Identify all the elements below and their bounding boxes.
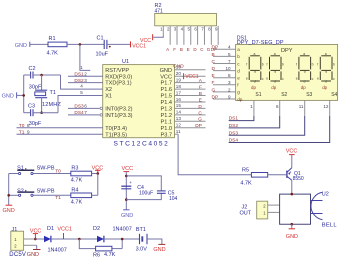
- designator J2: [242, 205, 248, 211]
- svg-text:a: a: [274, 52, 276, 56]
- junction C5 bottom: [125, 198, 128, 201]
- svg-text:C3: C3: [28, 104, 35, 110]
- svg-text:J2: J2: [242, 205, 248, 211]
- svg-text:DPY: DPY: [281, 48, 293, 54]
- junction R6 right: [121, 238, 124, 241]
- DS1 pin 3 (f) wire + net label F: [212, 80, 236, 86]
- svg-text:GND: GND: [286, 234, 298, 240]
- wire net T0 (U1 pin 8): [17, 127, 103, 129]
- svg-text:e: e: [317, 77, 319, 81]
- net label E (R2): [187, 47, 190, 52]
- U1 pin name T1(P3.5): [105, 132, 127, 138]
- svg-text:F: F: [212, 80, 215, 86]
- svg-text:DS1: DS1: [229, 116, 239, 122]
- net label G (U1): [198, 117, 202, 123]
- svg-text:6: 6: [276, 104, 279, 109]
- svg-text:DS1: DS1: [74, 72, 84, 78]
- designator C2: [29, 66, 36, 72]
- svg-text:C1: C1: [97, 36, 104, 42]
- U1 pin name P1.2: [160, 113, 172, 119]
- svg-text:D: D: [212, 66, 216, 72]
- svg-text:T0(P3.4): T0(P3.4): [105, 126, 127, 132]
- svg-text:P1.5: P1.5: [160, 94, 172, 100]
- ground port GND (bell): [286, 224, 298, 240]
- U1 pin 14 wire: [175, 110, 206, 115]
- U1 pin name INT1(P3.3): [105, 113, 132, 119]
- U1 pin name GND: [160, 68, 172, 74]
- svg-text:T0: T0: [19, 123, 25, 129]
- DS1 digit 4 dp label: [322, 85, 327, 90]
- value 104: [169, 196, 178, 202]
- R2 pin 9: [215, 26, 218, 45]
- value 4.7K (R1): [47, 51, 59, 57]
- wire net DS3 (display select): [229, 116, 305, 135]
- svg-text:BELL: BELL: [322, 223, 338, 229]
- U1 pin name VCC: [160, 74, 172, 80]
- U1 pin 16 wire: [175, 97, 206, 102]
- junction crystal top: [40, 74, 43, 77]
- wire J1 to D1: [35, 238, 44, 240]
- U1 pin name P1.4: [160, 100, 172, 106]
- U1 pin 12 wire: [175, 123, 206, 128]
- net label B (U1): [199, 91, 202, 97]
- value 1N4007 (D1): [48, 247, 67, 253]
- wire C2 row: [24, 74, 61, 76]
- J1 pin 1: [14, 237, 35, 242]
- designator S1: [17, 166, 24, 172]
- transistor Q1 (8550 PNP): [287, 168, 292, 194]
- svg-text:G: G: [198, 117, 202, 123]
- svg-text:GND: GND: [160, 68, 172, 74]
- svg-text:+: +: [129, 180, 132, 185]
- U1 pin name P1.7: [160, 81, 172, 87]
- R2 pin 5: [188, 26, 191, 45]
- svg-text:J1: J1: [12, 227, 18, 233]
- svg-text:104: 104: [169, 196, 178, 202]
- value 3.0V: [136, 246, 148, 252]
- power port VCC (J1): [30, 228, 42, 239]
- designator C1: [97, 36, 104, 42]
- DS1 pin name c: [237, 61, 240, 66]
- value 8550: [293, 176, 304, 182]
- junction bell GND node: [291, 223, 294, 226]
- U1 pin name RXD(P3.0): [105, 74, 132, 80]
- ground port GND (crystal): [2, 92, 24, 99]
- svg-text:30pF: 30pF: [29, 121, 42, 127]
- R2 pin 6: [194, 26, 197, 45]
- value 10uF: [96, 52, 109, 58]
- wire GND to R1: [30, 43, 48, 45]
- connector J2 body: [257, 201, 268, 219]
- svg-text:DS2: DS2: [229, 123, 239, 129]
- net label C (U1): [198, 110, 202, 116]
- net label DP (U1): [195, 123, 202, 129]
- svg-text:T1(P3.5): T1(P3.5): [105, 132, 127, 138]
- diode D2 (1N4007): [97, 236, 104, 243]
- designator U1: [122, 59, 129, 65]
- junction GND rail: [22, 94, 25, 97]
- net label DS2 / pin 3: [74, 78, 87, 84]
- svg-text:10: 10: [225, 66, 231, 71]
- wire C3 row: [24, 112, 58, 114]
- svg-text:DS2: DS2: [74, 78, 84, 84]
- DS1 pin name dp: [237, 97, 243, 102]
- junction S2 left: [7, 194, 10, 197]
- designator R1: [49, 36, 56, 42]
- U1 pin name X1: [105, 94, 112, 100]
- svg-text:X1: X1: [105, 94, 112, 100]
- DS1 pin 2 (g) wire + net label G: [212, 87, 236, 93]
- DS1 pin 9 (dp) wire + net label DP: [212, 94, 236, 100]
- svg-text:DS3: DS3: [74, 104, 84, 110]
- wire C1 to VCC1: [107, 43, 131, 45]
- svg-text:S4: S4: [331, 92, 337, 98]
- svg-text:e: e: [246, 77, 248, 81]
- svg-text:RXD(P3.0): RXD(P3.0): [105, 74, 132, 80]
- wire BT1 to GND: [147, 239, 162, 244]
- value 30pF (C2): [29, 84, 42, 90]
- svg-text:d: d: [237, 68, 240, 73]
- U1 pin name P1.1: [160, 119, 172, 125]
- power port VCC1 (bottom): [57, 227, 72, 239]
- svg-text:1N4007: 1N4007: [48, 247, 67, 253]
- svg-text:20: 20: [176, 71, 182, 76]
- DS1 pin 10 (d) wire + net label D: [212, 66, 236, 72]
- DS1 digit 3 seven-segment glyph: [296, 52, 314, 83]
- R2 pin 1: [160, 26, 163, 36]
- svg-text:R5: R5: [242, 167, 249, 173]
- wire left rail (C2-C3): [23, 75, 25, 113]
- svg-text:VCC: VCC: [286, 148, 298, 154]
- svg-text:4: 4: [80, 84, 83, 89]
- wire R4 to VCC rail: [92, 194, 98, 196]
- junction VCC rail: [97, 172, 100, 175]
- buzzer U2 (bell): [311, 192, 323, 219]
- wire D1 to D2: [51, 238, 97, 240]
- op-amp U1 body (MCU STC12C4052): [103, 65, 175, 138]
- svg-text:16: 16: [176, 97, 182, 102]
- connector J1 body: [11, 231, 24, 250]
- wire R1 to C1: [67, 43, 104, 45]
- svg-text:471: 471: [155, 9, 164, 15]
- value SW-PB (S2): [37, 188, 55, 194]
- svg-text:C: C: [212, 59, 216, 65]
- svg-text:D1: D1: [47, 226, 54, 232]
- designator R3: [71, 166, 78, 172]
- R2 pin 2: [167, 26, 170, 45]
- value DC5V: [9, 252, 26, 258]
- svg-text:2: 2: [84, 72, 87, 77]
- svg-text:P1.0: P1.0: [160, 126, 172, 132]
- svg-text:f: f: [267, 62, 268, 66]
- svg-text:BT1: BT1: [136, 227, 146, 233]
- svg-text:U1: U1: [122, 59, 129, 65]
- junction Q1 collector node: [291, 193, 294, 196]
- svg-text:R1: R1: [49, 36, 56, 42]
- power port VCC1 (U1 pin 20): [184, 73, 199, 80]
- svg-text:5: 5: [80, 90, 83, 95]
- wire X1 net: [58, 96, 103, 113]
- svg-text:3: 3: [228, 80, 231, 85]
- designator T1: [50, 90, 56, 96]
- svg-text:dp: dp: [322, 85, 327, 90]
- wire net DS1 (U1 pin 2): [68, 75, 103, 77]
- svg-text:T1: T1: [19, 130, 25, 136]
- resistor R1: [48, 42, 67, 47]
- DS1 pin name g: [237, 90, 240, 95]
- svg-text:GND: GND: [15, 43, 27, 49]
- diode D1 (1N4007): [44, 236, 51, 243]
- value 100uF: [139, 190, 153, 196]
- svg-text:4.7K: 4.7K: [240, 180, 252, 186]
- svg-text:4.7K: 4.7K: [104, 252, 116, 258]
- resistor network R2: [155, 14, 217, 26]
- svg-text:g: g: [274, 69, 276, 73]
- wire net DS4 (display select): [229, 116, 330, 143]
- svg-text:5: 5: [228, 52, 231, 57]
- junction crystal bottom: [40, 111, 43, 114]
- svg-text:T1: T1: [50, 90, 56, 96]
- svg-text:c: c: [262, 77, 264, 81]
- svg-text:P1.2: P1.2: [160, 113, 172, 119]
- svg-text:f: f: [246, 62, 247, 66]
- svg-text:X2: X2: [105, 87, 112, 93]
- DS1 digit 1 seven-segment glyph: [246, 52, 264, 83]
- net label T0: [55, 168, 61, 174]
- U1 pin name T0(P3.4): [105, 126, 127, 132]
- svg-text:dp: dp: [301, 85, 306, 90]
- ground port GND (top left): [15, 42, 30, 50]
- svg-text:g: g: [254, 69, 256, 73]
- svg-text:SW-PB: SW-PB: [37, 188, 55, 194]
- svg-text:4.7K: 4.7K: [47, 51, 59, 57]
- svg-text:GND: GND: [173, 64, 184, 70]
- U1 pin 19 wire: [175, 77, 206, 82]
- DS1 pin name b: [237, 54, 240, 59]
- DS1 digit 2 dp label: [271, 85, 276, 90]
- wire R3 to VCC rail: [92, 173, 98, 175]
- designator BT1: [136, 227, 146, 233]
- designator C5: [168, 190, 175, 196]
- DS1 pin name d: [237, 68, 240, 73]
- DS1 digit 2 seven-segment glyph: [266, 52, 284, 83]
- svg-text:dp: dp: [251, 85, 256, 90]
- net label A (R2): [166, 47, 169, 52]
- svg-text:GND: GND: [2, 94, 14, 100]
- svg-text:11: 11: [176, 129, 181, 134]
- svg-text:e: e: [296, 77, 298, 81]
- svg-text:b: b: [282, 62, 284, 66]
- designator R6: [93, 252, 100, 258]
- capacitor C4 (100uF polarized): [121, 180, 132, 189]
- R2 pin 3: [174, 26, 177, 45]
- U1 pin name X2: [105, 87, 112, 93]
- ground port GND (switches): [3, 205, 15, 214]
- svg-text:3: 3: [84, 78, 87, 83]
- svg-text:S2: S2: [281, 92, 287, 98]
- U1 pin name P1.5: [160, 94, 172, 100]
- power port VCC (Q1): [286, 148, 298, 154]
- power port VCC (R2 pin1): [140, 34, 153, 44]
- svg-text:T1: T1: [55, 195, 61, 201]
- power port VCC (switch pullups): [92, 166, 104, 174]
- wire R6 branch: [79, 239, 122, 249]
- svg-text:E: E: [212, 73, 215, 79]
- svg-text:VCC1: VCC1: [185, 74, 199, 80]
- svg-text:F: F: [199, 85, 202, 91]
- junction node RST: [79, 43, 82, 46]
- DS1 pin 1 (S1): [250, 92, 262, 116]
- svg-text:b: b: [237, 54, 240, 59]
- svg-text:2: 2: [228, 87, 231, 92]
- svg-text:P1.4: P1.4: [160, 100, 172, 106]
- DS1 pin name a: [237, 47, 240, 52]
- svg-text:9: 9: [27, 130, 30, 135]
- svg-text:6: 6: [84, 104, 87, 109]
- svg-text:e: e: [237, 76, 240, 81]
- designator J1: [12, 227, 18, 233]
- svg-text:d: d: [325, 80, 327, 84]
- svg-text:GND: GND: [27, 252, 39, 258]
- ground port GND (BT1): [153, 244, 165, 252]
- net label T1: [55, 195, 61, 201]
- svg-text:a: a: [254, 52, 256, 56]
- DS1 pin 12 (S4): [323, 92, 337, 116]
- switch S1 (SW-PB): [17, 168, 34, 174]
- svg-text:B: B: [180, 47, 183, 52]
- svg-text:7: 7: [228, 59, 231, 64]
- R2 pin 7: [201, 26, 204, 45]
- wire RST: junction down to U1 pin1: [80, 44, 90, 70]
- designator Q1: [294, 171, 301, 177]
- designator R4: [71, 187, 78, 193]
- net label G (R2): [207, 47, 211, 52]
- net label E (U1): [199, 97, 202, 103]
- svg-text:GND: GND: [3, 208, 15, 214]
- svg-text:f: f: [296, 62, 297, 66]
- svg-text:d: d: [304, 80, 306, 84]
- svg-text:b: b: [262, 62, 264, 66]
- junction R6 left: [78, 238, 81, 241]
- wire net T1 (U1 pin 9): [17, 133, 103, 135]
- svg-text:4.7K: 4.7K: [71, 178, 83, 184]
- wire S1 left: [9, 173, 19, 175]
- svg-text:100uF: 100uF: [139, 190, 153, 196]
- junction C5 top: [125, 175, 128, 178]
- svg-text:P1.6: P1.6: [160, 87, 172, 93]
- DS1 pin name e: [237, 76, 240, 81]
- svg-text:4: 4: [228, 45, 231, 50]
- U1 pin name P1.6: [160, 87, 172, 93]
- svg-text:DP: DP: [212, 45, 219, 51]
- U1 INT1 inversion bubble: [100, 114, 102, 116]
- svg-text:19: 19: [176, 77, 182, 82]
- svg-text:12: 12: [176, 123, 182, 128]
- R2 pin 4: [181, 26, 184, 45]
- net label DP (R2): [211, 47, 217, 52]
- net label T0 / pin 8: [19, 123, 30, 129]
- net label DS1: [229, 116, 239, 122]
- ground port GND (C4): [121, 210, 133, 219]
- svg-text:8: 8: [228, 73, 231, 78]
- value 4.7K (R6): [104, 252, 116, 258]
- svg-text:11: 11: [299, 104, 304, 109]
- DS1 digit 1 dp label: [251, 85, 256, 90]
- svg-text:DP: DP: [195, 123, 202, 129]
- designator C4: [137, 185, 144, 191]
- net label GND (U1 pin 10): [173, 64, 184, 70]
- svg-text:VCC1: VCC1: [132, 43, 146, 49]
- svg-text:INT1(P3.3): INT1(P3.3): [105, 113, 132, 119]
- svg-text:DS3: DS3: [229, 130, 239, 136]
- svg-text:g: g: [304, 69, 306, 73]
- value 4.7K (R3): [71, 178, 83, 184]
- J1 pin 2: [14, 243, 37, 248]
- wire VCC rail down to R4: [97, 174, 99, 196]
- svg-text:S2: S2: [17, 188, 24, 194]
- net label DS4 / pin 7: [74, 110, 87, 116]
- svg-text:1: 1: [80, 65, 83, 70]
- U1 pin 4: [80, 84, 83, 89]
- value STC12C4052: [114, 140, 170, 147]
- svg-text:b: b: [333, 62, 335, 66]
- svg-text:S1: S1: [17, 166, 24, 172]
- wire R5 to Q1 base: [268, 174, 287, 176]
- U1 pin name P1.0: [160, 126, 172, 132]
- value 4.7K (R4): [71, 200, 83, 206]
- net label B (R2): [180, 47, 183, 52]
- net label F (R2): [173, 47, 176, 52]
- value BELL: [322, 223, 338, 229]
- svg-text:7: 7: [84, 110, 87, 115]
- value OUT: [240, 211, 252, 217]
- svg-text:P1.7: P1.7: [160, 81, 172, 87]
- crystal T1: [35, 75, 47, 113]
- svg-text:D: D: [198, 104, 202, 110]
- svg-text:E: E: [187, 47, 190, 52]
- svg-text:SW-PB: SW-PB: [37, 166, 55, 172]
- value DPY_D7-SEG_DP: [237, 40, 284, 46]
- svg-text:e: e: [266, 77, 268, 81]
- wire net DS1 (display select): [229, 116, 254, 121]
- junction J1 VCC: [34, 238, 37, 241]
- wire S1 to R3: [33, 173, 71, 175]
- U1 pin name P1.3: [160, 107, 172, 113]
- svg-text:dp: dp: [237, 97, 243, 102]
- svg-text:D2: D2: [93, 226, 100, 232]
- svg-text:B: B: [212, 52, 215, 58]
- display DS1 body: [236, 45, 338, 101]
- svg-text:G: G: [212, 87, 216, 93]
- svg-text:R6: R6: [93, 252, 100, 258]
- svg-text:INT0(P3.2): INT0(P3.2): [105, 107, 132, 113]
- svg-text:17: 17: [176, 90, 182, 95]
- svg-text:A: A: [166, 47, 169, 52]
- ground port GND (J1): [27, 245, 41, 258]
- svg-text:g: g: [237, 90, 240, 95]
- designator R5: [242, 167, 249, 173]
- battery BT1: [140, 234, 148, 244]
- svg-text:P1.1: P1.1: [160, 119, 172, 125]
- DS1 pin 4 (a) wire + net label DP: [212, 45, 236, 51]
- wire net DS4 (U1 pin 7): [68, 114, 100, 116]
- U1 pin 11 wire: [175, 129, 182, 134]
- resistor R5: [251, 173, 267, 178]
- svg-text:STC12C4052: STC12C4052: [114, 140, 170, 147]
- net label DS3 / pin 6: [74, 104, 87, 110]
- svg-text:3.0V: 3.0V: [136, 246, 148, 252]
- value 30pF (C3): [29, 121, 42, 127]
